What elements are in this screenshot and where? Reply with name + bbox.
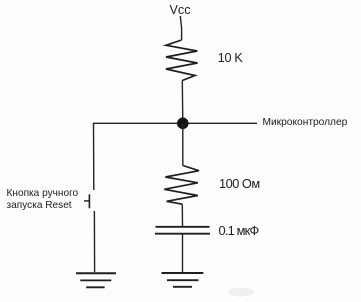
wire Vcc stub bbox=[180, 16, 181, 40]
svg-text:100 Ом: 100 Ом bbox=[219, 176, 260, 191]
wire node to right bbox=[183, 122, 257, 124]
svg-text:0.1 мкФ: 0.1 мкФ bbox=[219, 223, 259, 238]
wire R2 to capacitor bbox=[181, 204, 183, 226]
resistor R1 bbox=[166, 40, 198, 81]
Vcc power label bbox=[170, 3, 191, 17]
wire R1 to node bbox=[181, 81, 184, 124]
pushbutton switch Reset bbox=[84, 194, 89, 208]
wire node down to R2 bbox=[182, 123, 184, 165]
ground right bbox=[162, 273, 204, 287]
ground left bbox=[76, 273, 116, 287]
net label Микроконтроллер bbox=[263, 117, 348, 128]
wire capacitor to right ground bbox=[182, 235, 184, 273]
svg-text:Vcc: Vcc bbox=[170, 3, 191, 17]
svg-text:Кнопка ручного: Кнопка ручного bbox=[7, 188, 79, 199]
svg-text:10 K: 10 K bbox=[218, 51, 244, 65]
value label 10 K bbox=[218, 51, 244, 65]
capacitor C1 bbox=[155, 227, 210, 234]
svg-text:запуска Reset: запуска Reset bbox=[7, 200, 72, 211]
label Кнопка ручного запуска Reset bbox=[7, 188, 79, 211]
value label 0.1 мкФ bbox=[219, 223, 259, 238]
svg-text:Микроконтроллер: Микроконтроллер bbox=[263, 117, 348, 128]
value label 100 Ом bbox=[219, 176, 260, 191]
resistor R2 bbox=[164, 166, 199, 205]
wire node to left and down bbox=[94, 123, 183, 190]
scan smudge artifact bbox=[228, 288, 254, 297]
node junction dot bbox=[177, 118, 189, 130]
wire switch to left ground bbox=[93, 211, 95, 272]
